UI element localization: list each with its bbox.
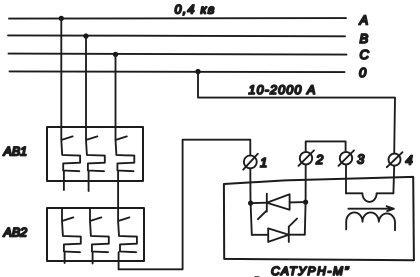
terminal circle 3 [339,150,355,165]
svg-text:АВ1: АВ1 [3,145,28,159]
wire bus phase B [8,34,345,37]
terminal circle 4 [387,152,403,167]
svg-text:4: 4 [406,153,413,168]
breaker AB2 pole 1 [62,208,81,263]
svg-text:2: 2 [315,152,324,167]
wire tap B down to AB1 [85,36,87,127]
breaker AB1 pole 1 [61,127,80,190]
svg-text:0: 0 [359,65,367,80]
node right (thyristor cathode bus) [303,200,308,205]
terminal circle 2 [299,150,315,165]
svg-text:„: „ [254,266,260,277]
breaker box AB1 [47,127,143,181]
wire neutral to 10-2000A line [198,72,395,154]
svg-text:АВ2: АВ2 [3,226,28,240]
svg-text:В: В [360,31,369,46]
wire bus phase C [9,54,347,55]
wire tap C down to AB1 [115,54,117,127]
svg-text:САТУРН-М”: САТУРН-М” [271,264,350,277]
wire link terminal 2 to terminal 3 [306,141,346,152]
thyristor VS2 bottom (points right) [251,202,306,242]
device box SATURN-M [224,177,414,260]
svg-text:1: 1 [260,155,267,170]
svg-text:3: 3 [357,152,365,167]
breaker box AB2 [47,208,144,261]
svg-text:А: А [359,13,369,28]
node tap B [83,33,88,38]
current transformer arrow [348,206,393,211]
svg-text:0,4 кв: 0,4 кв [175,3,216,17]
terminal circle 1 [243,154,258,170]
node tap A [59,16,64,21]
node left (thyristor anode bus) [248,201,253,206]
breaker AB2 pole 3 (feed from AB1) [118,208,137,269]
breaker AB1 pole 3 (exit runs to AB2) [116,127,135,208]
node tap 0 [195,69,200,74]
wire tap A down to AB1 [60,18,62,127]
breaker AB2 pole 2 [90,208,109,264]
node tap C [113,52,118,57]
wire terminal 1 to left node [249,168,251,203]
wire terminal 2 to right node [305,164,307,202]
svg-text:С: С [360,47,370,62]
breaker AB1 pole 2 [86,127,105,191]
wire AB2 output to terminal 1 [119,140,251,270]
wire bus neutral 0 [10,70,345,73]
current transformer secondary winding [346,212,395,230]
thyristor VS1 top (points left) [251,194,306,220]
wire bus phase A [9,17,346,20]
svg-text:10-2000 А: 10-2000 А [249,83,317,97]
current transformer TA primary [346,164,394,202]
